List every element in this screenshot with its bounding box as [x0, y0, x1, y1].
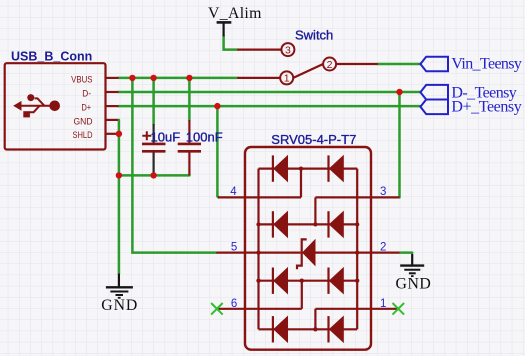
wire switch pin 2 to Vin_Teensy [378, 63, 420, 66]
wire D+ from USB to D+_Teensy [119, 105, 421, 108]
junction ground rail left [116, 172, 122, 178]
pin 6 internal vertical [301, 281, 303, 309]
svg-text:6: 6 [231, 298, 237, 310]
svg-text:SHLD: SHLD [73, 130, 93, 141]
junction VBUS / pin5 drop [129, 75, 135, 81]
svg-text:GND: GND [396, 275, 431, 292]
node row1 / pin4 [299, 166, 303, 170]
wire SRV05 pin 2 to ground [399, 251, 412, 254]
svg-text:D-: D- [82, 88, 91, 99]
node row2 / right rail [355, 222, 359, 226]
pin VBUS name [71, 74, 92, 141]
switch lever [293, 64, 323, 78]
svg-text:GND: GND [101, 297, 137, 314]
switch pin 2 line [336, 63, 378, 65]
diode D row3 right [327, 268, 329, 294]
node pin5 / left rail [256, 250, 260, 254]
wire VBUS drop to SRV05 pin 5 [132, 78, 216, 253]
ground symbol right [400, 254, 424, 276]
svg-text:USB_B_Conn: USB_B_Conn [11, 49, 92, 63]
diode row 2 line [259, 223, 358, 225]
wire D+ drop to SRV05 pin 4 [216, 106, 219, 196]
junction D- / pin3 drop [396, 89, 402, 95]
svg-text:2: 2 [380, 242, 386, 254]
node row2 / left rail [256, 222, 260, 226]
connector USB_B_Conn body [5, 63, 106, 149]
diode D row1 right [327, 155, 329, 181]
hierarchical label D-_Teensy shape [420, 85, 448, 100]
hierarchical label D+_Teensy shape [420, 100, 448, 115]
pin 6 line [217, 308, 302, 310]
junction D+ / pin4 drop [214, 103, 220, 109]
node row3 / pin6 [300, 279, 304, 283]
wire capacitor ground rail [119, 174, 189, 177]
junction GND/SHLD [116, 131, 122, 137]
pin D+ stub [106, 105, 119, 107]
svg-text:1: 1 [380, 298, 386, 310]
pin number 4 [230, 186, 386, 310]
wire D- drop to SRV05 pin 3 [398, 92, 401, 197]
pin 3 internal vertical [314, 197, 316, 224]
wire V_Alim to switch pin 3 [224, 36, 238, 50]
diode row 4 line [259, 328, 358, 330]
svg-text:3: 3 [285, 44, 291, 56]
diode D row4 left [272, 316, 274, 342]
junction VBUS / 10uF [150, 75, 156, 81]
diode D row1 left [272, 155, 274, 181]
svg-text:100nF: 100nF [186, 130, 223, 145]
node pin2 / right rail [355, 250, 359, 254]
diode row 1 line [259, 168, 358, 170]
diode D row2 right [327, 211, 329, 237]
svg-text:VBUS: VBUS [71, 74, 92, 85]
wire VBUS bus from USB to switch pin 1 [119, 77, 238, 80]
svg-text:SRV05-4-P-T7: SRV05-4-P-T7 [271, 132, 356, 147]
svg-text:Switch: Switch [295, 27, 333, 42]
capacitor C1 10uF [142, 124, 166, 175]
switch pin 1 line [237, 77, 280, 79]
node row2 / pin3 [313, 222, 317, 226]
no-connect X on pin 1 [393, 303, 405, 315]
pin 5 line [216, 252, 300, 254]
wire corner nub at pin 4 [217, 196, 218, 197]
diode D row4 right [327, 316, 329, 342]
pin GND stub [106, 119, 119, 121]
pin 1 line [315, 308, 398, 310]
diodes group [273, 155, 344, 343]
svg-text:4: 4 [230, 186, 237, 198]
right anode rail [356, 169, 358, 330]
USB icon inside connector [13, 94, 60, 117]
pin 1 internal vertical [314, 309, 316, 330]
diode D row2 left [272, 211, 274, 237]
pin 2 line [315, 252, 399, 254]
left cathode rail [257, 169, 259, 330]
svg-text:Vin_Teensy: Vin_Teensy [451, 55, 522, 72]
svg-text:5: 5 [231, 242, 237, 254]
pin 3 line [315, 196, 399, 198]
wire GND/SHLD down to ground [118, 120, 121, 274]
junction ground rail / 10uF [150, 172, 156, 178]
switch contact circle 3 [281, 43, 294, 56]
node row3 / left rail [256, 279, 260, 283]
svg-text:GND: GND [74, 116, 93, 127]
ground symbol left [106, 274, 133, 298]
node row3 / right rail [355, 279, 359, 283]
switch SW1 [237, 43, 378, 84]
svg-text:2: 2 [327, 59, 333, 71]
wire D- from USB to D-_Teensy [119, 91, 421, 94]
power flag V_Alim [217, 22, 232, 36]
svg-text:1: 1 [284, 73, 290, 85]
pin SHLD stub [106, 133, 117, 135]
zener TVS diode center [297, 239, 307, 269]
svg-text:3: 3 [380, 186, 386, 198]
hierarchical label Vin_Teensy shape [420, 57, 448, 114]
capacitor C2 100nF [178, 120, 201, 175]
diode D row3 left [272, 268, 274, 294]
switch contact circle 2 [323, 58, 336, 71]
diode row 3 line [259, 280, 358, 282]
svg-text:10uF: 10uF [151, 130, 181, 145]
switch pin 3 line [237, 48, 281, 50]
node row4 / pin1 [313, 327, 317, 331]
pin VBUS stub [106, 77, 119, 79]
pin D- stub [106, 91, 119, 93]
svg-text:D+: D+ [81, 103, 91, 114]
pin 4 internal vertical [300, 169, 302, 198]
IC U1 SRV05-4-P-T7 body [245, 147, 371, 350]
switch contact circle 1 [280, 71, 293, 84]
no-connect X on pin 6 [211, 303, 404, 315]
svg-text:V_Alim: V_Alim [208, 5, 262, 22]
svg-text:D+_Teensy: D+_Teensy [451, 98, 521, 115]
plus sign of polarized cap [142, 131, 151, 140]
junction VBUS / 100nF [186, 75, 192, 81]
wire 100nF top lead to VBUS [188, 78, 191, 120]
wire 10uF top lead to VBUS [152, 78, 155, 124]
pin 4 line [218, 196, 301, 198]
